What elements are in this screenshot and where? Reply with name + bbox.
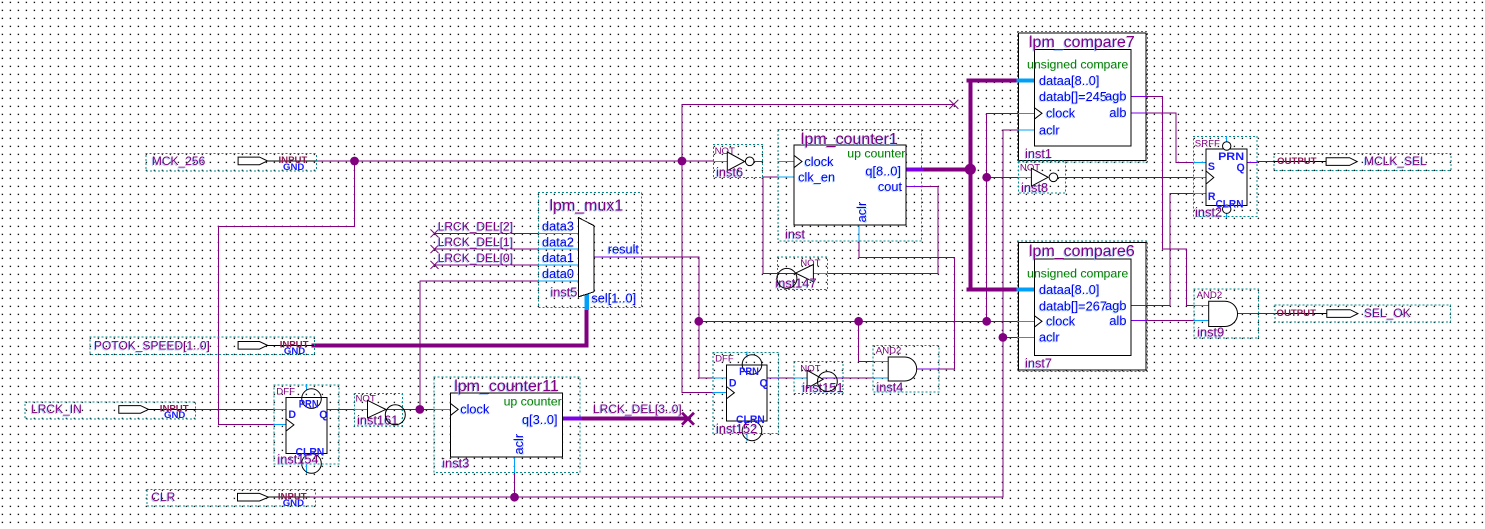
wire mux result to DFF inst152 D (642, 257, 713, 378)
DFF154 CLRN bubble (302, 454, 322, 474)
SRFF S stub (1193, 161, 1206, 163)
wire NOT inst161 out to lpm_counter11 clock (402, 408, 433, 410)
svg-text:GND: GND (164, 410, 185, 421)
svg-text:OUTPUT: OUTPUT (1277, 308, 1317, 319)
DFF154 clock stub (274, 423, 286, 425)
wire CLR trunk (310, 496, 1003, 498)
svg-text:GND: GND (284, 346, 305, 357)
inverter NOT inst6 (713, 145, 762, 180)
wire AND2 inst4 out to lpm_counter1 aclr (859, 241, 955, 369)
node dangling X marker top (950, 100, 958, 108)
svg-text:aclr: aclr (511, 433, 526, 454)
compare7 inner body (1035, 50, 1132, 147)
bus lpm_counter11 q[3..0] LRCK_DEL (580, 417, 685, 421)
wire drop to AND2 inst4 input a (859, 321, 875, 361)
output pin SEL_OK (1275, 305, 1451, 322)
NOT161 output stub (386, 408, 403, 410)
node bus junction q trunk (965, 164, 976, 175)
DFF154 body (286, 398, 327, 454)
svg-text:OUTPUT: OUTPUT (1277, 156, 1317, 167)
compare6 aclr stub (1019, 336, 1035, 338)
node X marker LRCK_DEL[1] (431, 245, 438, 252)
svg-text:inst154: inst154 (277, 452, 318, 467)
AND9 input a stub (1194, 304, 1209, 306)
DFF154 Q stub (327, 408, 339, 410)
bus to lpm_compare7 dataa (969, 78, 1019, 82)
mux trapezoid body (578, 218, 594, 297)
svg-text:S: S (1208, 161, 1215, 173)
AND4 output stub (917, 368, 939, 370)
SRFF CLRN bubble (1223, 205, 1231, 213)
NOT151 output stub (823, 377, 843, 379)
compare7 clock stub (1019, 112, 1035, 114)
DFF152 PRN bubble (742, 355, 762, 375)
svg-text:inst152: inst152 (716, 421, 757, 436)
SRFF PRN bubble (1223, 142, 1231, 150)
mux sel stub (585, 294, 589, 308)
svg-text:agb: agb (1105, 298, 1126, 313)
node junction x986 y177 (982, 173, 991, 182)
wire MCK_256 branch x682 to DFF inst152 clock (682, 104, 713, 392)
wire LRCK_DEL[2] (435, 232, 539, 234)
SRFF body (1206, 149, 1247, 206)
wire SRFF Q to output pin (1257, 161, 1274, 163)
svg-text:lpm_counter1: lpm_counter1 (801, 131, 898, 148)
svg-text:alb: alb (1109, 313, 1126, 328)
DFF154 clock triangle (286, 419, 294, 431)
svg-text:PRN: PRN (299, 398, 319, 410)
DFF152 PRN tick (746, 352, 748, 357)
wire CLR riser x1002 to compare aclr (1003, 130, 1019, 497)
counter1 q stub (906, 167, 922, 171)
NOT147 input stub (813, 273, 827, 275)
svg-text:inst161: inst161 (357, 412, 398, 427)
svg-text:Q: Q (319, 409, 327, 421)
NOT151 bubble (818, 372, 838, 392)
svg-text:dataa[8..0]: dataa[8..0] (1039, 73, 1099, 88)
compare6 alb stub (1131, 320, 1146, 322)
compare7 aclr stub (1019, 129, 1035, 131)
svg-text:clock: clock (460, 402, 490, 417)
AND9 input b stub (1194, 320, 1209, 322)
compare6 agb stub (1131, 305, 1146, 307)
NOT151 input stub (795, 377, 808, 379)
comparator lpm_compare7 inst1 (1018, 32, 1148, 163)
input pin POTOK_SPEED[1..0] (90, 337, 314, 357)
DFF152 Q stub (767, 377, 779, 379)
node junction y321 x986 (982, 317, 991, 326)
mux data3 stub (538, 232, 578, 234)
NOT6 output stub (754, 161, 762, 163)
wire LRCK_IN to DFF inst154 D (196, 408, 274, 410)
NOT147 triangle (796, 265, 814, 282)
node junction MCK at x682 (678, 157, 687, 166)
compare6 clock triangle (1035, 316, 1043, 327)
svg-text:inst9: inst9 (1197, 325, 1224, 340)
bus to lpm_compare6 dataa (969, 287, 1019, 291)
counter1 clk_en stub (778, 176, 794, 178)
svg-text:inst3: inst3 (442, 455, 469, 470)
bus POTOK_SPEED to mux sel (314, 308, 587, 345)
svg-text:LRCK_DEL[3..0]: LRCK_DEL[3..0] (593, 402, 682, 416)
svg-text:SEL_OK: SEL_OK (1364, 306, 1411, 320)
DFF152 D stub (713, 377, 727, 379)
counter lpm_counter11 inst3 (434, 377, 580, 472)
wire NOT inst8 out to SRFF clock (1066, 176, 1194, 178)
counter1 clock triangle (794, 156, 802, 168)
DFF152 CLRN bubble (742, 421, 762, 441)
svg-text:cout: cout (878, 179, 903, 194)
node junction at x419 (415, 405, 424, 414)
NOT161 bubble (385, 405, 405, 425)
svg-text:Q: Q (760, 378, 768, 390)
svg-text:lpm_compare7: lpm_compare7 (1029, 34, 1135, 51)
bus lpm_counter1 q[8..0] to compare dataa (922, 167, 971, 171)
svg-text:DFF: DFF (715, 354, 734, 365)
svg-text:unsigned compare: unsigned compare (1027, 58, 1128, 72)
DFF154 PRN tick (306, 384, 308, 389)
svg-text:inst: inst (785, 227, 805, 242)
mux data0 stub (538, 280, 578, 282)
wire MCK_256 drop to DFF inst154 clock (218, 161, 354, 424)
flip-flop DFF inst152 (713, 352, 779, 441)
node junction MCK at x354 (350, 157, 359, 166)
counter1 clock stub (778, 161, 794, 163)
DFF152 clock triangle (727, 387, 735, 399)
compare7 agb stub (1131, 96, 1146, 98)
svg-text:lpm_mux1: lpm_mux1 (550, 197, 624, 214)
svg-text:PRN: PRN (739, 366, 759, 378)
svg-text:DFF: DFF (276, 387, 295, 398)
wire lpm_compare7 alb to SRFF S (1146, 113, 1193, 162)
compare6 dataa stub (1019, 287, 1035, 291)
DFF154 D stub (274, 408, 286, 410)
svg-text:data1: data1 (542, 250, 574, 265)
NOT6 input stub (713, 161, 727, 163)
mux data1 stub (538, 264, 578, 266)
svg-text:clock: clock (804, 154, 834, 169)
svg-text:POTOK_SPEED[1..0]: POTOK_SPEED[1..0] (94, 339, 210, 353)
svg-text:up counter: up counter (504, 394, 562, 408)
svg-text:inst5: inst5 (550, 285, 577, 300)
SRFF Q stub (1247, 161, 1257, 163)
wire NOT inst151 out to AND2 inst4 input b (843, 377, 874, 379)
counter11 aclr stub (514, 457, 516, 472)
input pin CLR (147, 489, 315, 509)
SRFF clock triangle (1206, 171, 1214, 184)
AND9 body (1209, 301, 1238, 326)
svg-text:AND2: AND2 (1197, 290, 1223, 301)
wire NOT inst147 out to lpm_counter1 clk_en (763, 177, 796, 274)
svg-text:alb: alb (1109, 105, 1126, 120)
svg-text:aclr: aclr (1039, 330, 1060, 345)
NOT147 bubble (777, 268, 797, 288)
node junction y321 x858 (854, 317, 863, 326)
DFF154 CLRN tick (306, 464, 308, 473)
wire lpm_compare6 agb to SRFF R (1146, 194, 1193, 306)
mux lpm_mux1 inst5 (538, 193, 641, 308)
svg-text:Q: Q (1237, 162, 1245, 174)
counter11 body (450, 393, 562, 457)
wire riser x419 to mux data0 (420, 281, 539, 409)
svg-text:inst2: inst2 (1195, 205, 1222, 220)
flip-flop DFF inst154 (274, 384, 339, 473)
inverter NOT inst151 (794, 362, 844, 396)
svg-text:inst1: inst1 (1025, 146, 1052, 161)
wire CLR to lpm_counter11 aclr (514, 472, 516, 497)
compare7 dataa stub (1019, 78, 1035, 82)
svg-text:CLR: CLR (151, 490, 175, 504)
svg-text:inst4: inst4 (876, 380, 903, 395)
input pin LRCK_IN (25, 402, 196, 421)
NOT6 triangle (727, 152, 744, 171)
compare6 clock stub (1019, 320, 1035, 322)
node junction x1002 y337 (999, 333, 1008, 342)
svg-text:LRCK_DEL[0]: LRCK_DEL[0] (438, 251, 513, 265)
svg-text:GND: GND (283, 162, 304, 173)
wire lpm_compare7 agb to AND2 inst9 input a (1146, 97, 1194, 306)
svg-text:MCK_256: MCK_256 (152, 154, 206, 168)
svg-text:result: result (608, 242, 640, 257)
counter1 body (794, 145, 906, 225)
svg-text:clk_en: clk_en (798, 170, 835, 185)
svg-text:q[3..0]: q[3..0] (522, 412, 558, 427)
compare7 clock triangle (1035, 108, 1043, 119)
counter1 cout stub (906, 186, 922, 188)
svg-text:clock: clock (1046, 106, 1076, 121)
mux result stub (594, 256, 642, 258)
svg-text:GND: GND (283, 498, 304, 509)
DFF152 clock stub (713, 392, 727, 394)
svg-text:data3: data3 (542, 219, 574, 234)
svg-text:lpm_compare6: lpm_compare6 (1029, 243, 1135, 260)
svg-text:clock: clock (1046, 314, 1076, 329)
svg-text:AND2: AND2 (876, 346, 902, 357)
NOT6 bubble (745, 157, 754, 166)
svg-text:up counter: up counter (847, 147, 905, 161)
AND4 body (888, 357, 917, 381)
svg-text:aclr: aclr (854, 201, 869, 222)
DFF152 CLRN tick (746, 432, 748, 441)
wire x986 to NOT inst8 input (987, 176, 1019, 178)
svg-text:aclr: aclr (1039, 122, 1060, 137)
bus vertical dataa trunk (968, 80, 972, 289)
comparator lpm_compare6 inst7 (1018, 241, 1148, 371)
svg-text:D: D (729, 378, 737, 390)
SRFF R stub (1193, 193, 1206, 195)
AND9 output stub (1238, 313, 1259, 315)
node junction result/clock net (694, 317, 703, 326)
inverter NOT inst161 (355, 393, 406, 427)
wire riser x986 to lpm_compare7 clock (987, 113, 1019, 321)
NOT161 input stub (355, 408, 368, 410)
NOT151 triangle (807, 370, 823, 388)
svg-text:datab[]=267: datab[]=267 (1039, 298, 1107, 313)
wire dangling top segment (682, 103, 954, 105)
svg-text:dataa[8..0]: dataa[8..0] (1039, 282, 1099, 297)
counter1 aclr stub (858, 225, 860, 241)
svg-text:datab[]=245: datab[]=245 (1039, 89, 1107, 104)
wire DFF inst152 Q to NOT inst151 (779, 377, 795, 379)
NOT8 output stub (1058, 176, 1066, 178)
wire DFF inst154 Q to NOT inst161 (339, 408, 355, 410)
svg-text:inst8: inst8 (1021, 180, 1048, 195)
svg-text:sel[1..0]: sel[1..0] (591, 291, 636, 306)
node X marker LRCK_DEL[0] (431, 261, 438, 268)
wire lpm_counter1 cout to NOT inst147 input (827, 187, 938, 274)
SRFF CLRN tick (1226, 213, 1228, 217)
wire LRCK_DEL[0] (435, 264, 539, 266)
counter11 clock stub (434, 408, 451, 410)
wire AND2 inst9 out to output pin (1259, 313, 1276, 315)
node junction CLR x514 (510, 493, 519, 502)
svg-text:LRCK_IN: LRCK_IN (31, 402, 82, 416)
SRFF PRN tick (1226, 136, 1228, 142)
mux data2 stub (538, 248, 578, 250)
svg-text:lpm_counter11: lpm_counter11 (454, 378, 559, 395)
NOT161 triangle (368, 400, 386, 418)
wire LRCK_DEL[1] (435, 248, 539, 250)
wire lpm_compare6 alb to AND2 inst9 input b (1146, 320, 1194, 322)
node X marker LRCK_DEL[2] (431, 230, 438, 237)
wire long clock net y321 (699, 320, 1019, 322)
input pin MCK_256 (146, 154, 316, 173)
NOT8 triangle (1031, 168, 1048, 186)
svg-text:D: D (288, 409, 296, 421)
latch SRFF inst2 (1193, 136, 1257, 219)
output pin MCLK_SEL (1274, 154, 1451, 171)
NOT8 bubble (1049, 173, 1058, 182)
svg-text:inst7: inst7 (1025, 355, 1052, 370)
DFF154 PRN bubble (302, 389, 322, 409)
svg-text:LRCK_DEL[1]: LRCK_DEL[1] (438, 235, 513, 249)
svg-text:agb: agb (1105, 89, 1126, 104)
counter11 clock triangle (450, 403, 458, 415)
compare7 alb stub (1131, 112, 1146, 114)
gate AND2 inst9 (1194, 289, 1259, 340)
counter11 q stub (562, 417, 580, 421)
svg-text:MCLK_SEL: MCLK_SEL (1364, 154, 1427, 168)
AND4 input b stub (874, 377, 888, 379)
SRFF clock stub (1193, 177, 1206, 179)
svg-text:q[8..0]: q[8..0] (865, 163, 901, 178)
AND4 input a stub (874, 361, 888, 363)
svg-text:SRFF: SRFF (1195, 138, 1220, 149)
svg-text:data0: data0 (542, 266, 574, 281)
svg-text:LRCK_DEL[2]: LRCK_DEL[2] (438, 219, 513, 233)
inverter NOT inst8 (1018, 161, 1065, 195)
svg-text:inst6: inst6 (716, 164, 743, 179)
compare6 inner body (1035, 259, 1132, 356)
DFF152 body (727, 365, 767, 421)
gate AND2 inst4 (873, 346, 939, 395)
wire MCK_256 trunk (316, 160, 714, 162)
wire x1002 to lpm_compare6 aclr (1003, 336, 1019, 338)
svg-text:unsigned compare: unsigned compare (1027, 267, 1128, 281)
inverter NOT inst147 mirrored (775, 257, 827, 291)
svg-text:data2: data2 (542, 234, 574, 249)
counter lpm_counter1 inst (778, 129, 922, 241)
NOT8 input stub (1018, 176, 1031, 178)
node bold X marker LRCK_DEL bus end (683, 414, 693, 424)
